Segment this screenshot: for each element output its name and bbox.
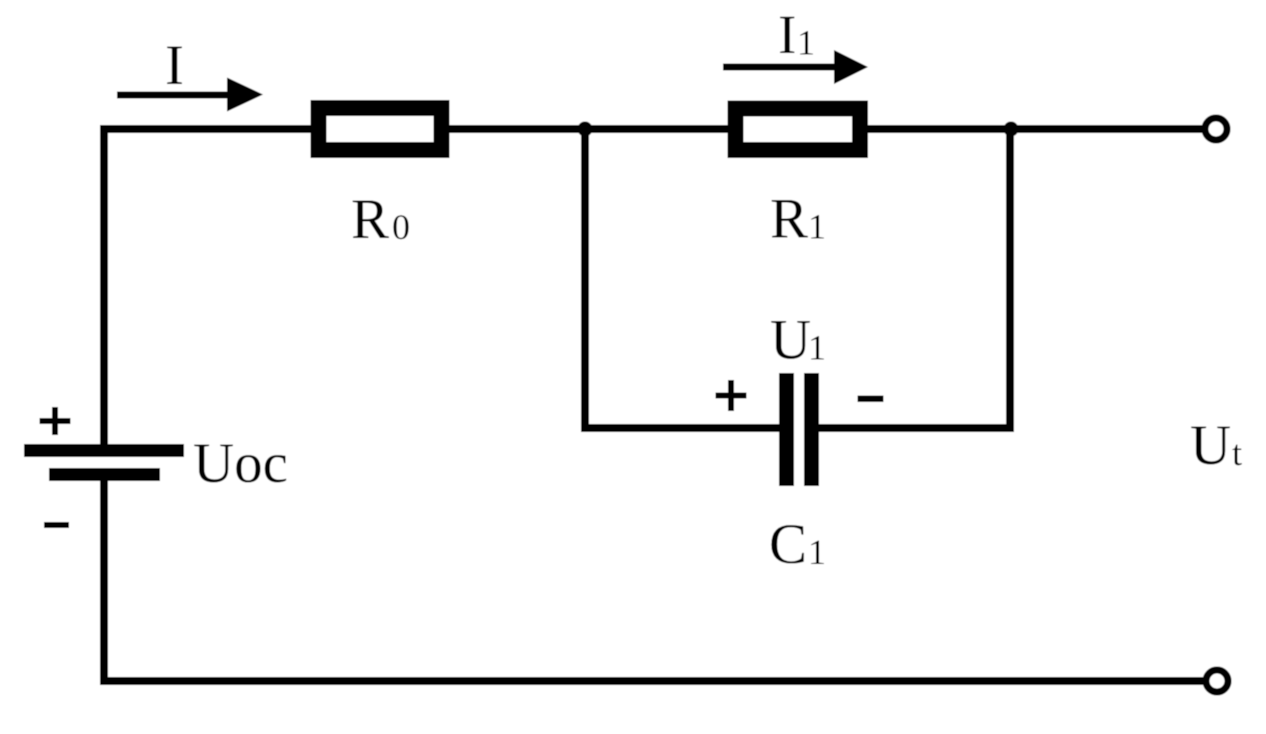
terminal: bottom-right open circle xyxy=(1206,670,1228,692)
capacitor plus sign xyxy=(716,393,747,399)
svg-text:1: 1 xyxy=(797,23,815,63)
svg-text:Uoc: Uoc xyxy=(193,432,288,495)
wire: left vertical, top wire down to battery positive plate xyxy=(100,125,108,447)
wire: parallel-branch bottom, right segment from capacitor xyxy=(812,424,1014,432)
wire: left vertical, battery negative plate down to bottom wire xyxy=(100,478,108,685)
svg-text:I: I xyxy=(165,34,184,97)
battery plus sign xyxy=(40,418,71,424)
battery minus sign xyxy=(44,522,69,528)
resistor R1 xyxy=(736,109,861,151)
node A junction dot xyxy=(578,122,593,137)
svg-text:1: 1 xyxy=(808,207,826,247)
battery Uoc: long positive plate xyxy=(24,444,184,457)
svg-text:R: R xyxy=(351,188,389,251)
svg-text:I: I xyxy=(778,4,796,65)
capacitor C1: right plate xyxy=(804,373,819,486)
wire: middle vertical at node A xyxy=(581,125,589,432)
battery Uoc: short negative plate xyxy=(49,468,160,481)
capacitor C1: left plate xyxy=(779,373,794,486)
svg-text:U: U xyxy=(770,309,811,372)
current arrow I1 (shaft) xyxy=(723,64,836,71)
svg-text:t: t xyxy=(1232,433,1242,473)
terminal: top-right open circle xyxy=(1205,118,1227,140)
svg-text:1: 1 xyxy=(808,328,826,368)
svg-text:U: U xyxy=(1190,414,1231,477)
svg-text:1: 1 xyxy=(808,532,826,572)
current arrow I1 (head) xyxy=(834,50,868,84)
svg-text:R: R xyxy=(770,188,808,251)
svg-text:0: 0 xyxy=(392,207,410,247)
capacitor minus sign xyxy=(858,396,884,403)
wire: right vertical at node B xyxy=(1006,125,1014,432)
current arrow I (shaft) xyxy=(117,92,229,99)
wire: top horizontal from battery to right terminal xyxy=(100,125,1204,133)
wire: parallel-branch bottom, left segment to capacitor xyxy=(581,424,786,432)
svg-text:C: C xyxy=(769,513,807,576)
wire: bottom horizontal return xyxy=(100,677,1205,685)
current arrow I (head) xyxy=(227,78,263,112)
node B junction dot xyxy=(1004,122,1019,137)
resistor R0 xyxy=(319,108,442,150)
